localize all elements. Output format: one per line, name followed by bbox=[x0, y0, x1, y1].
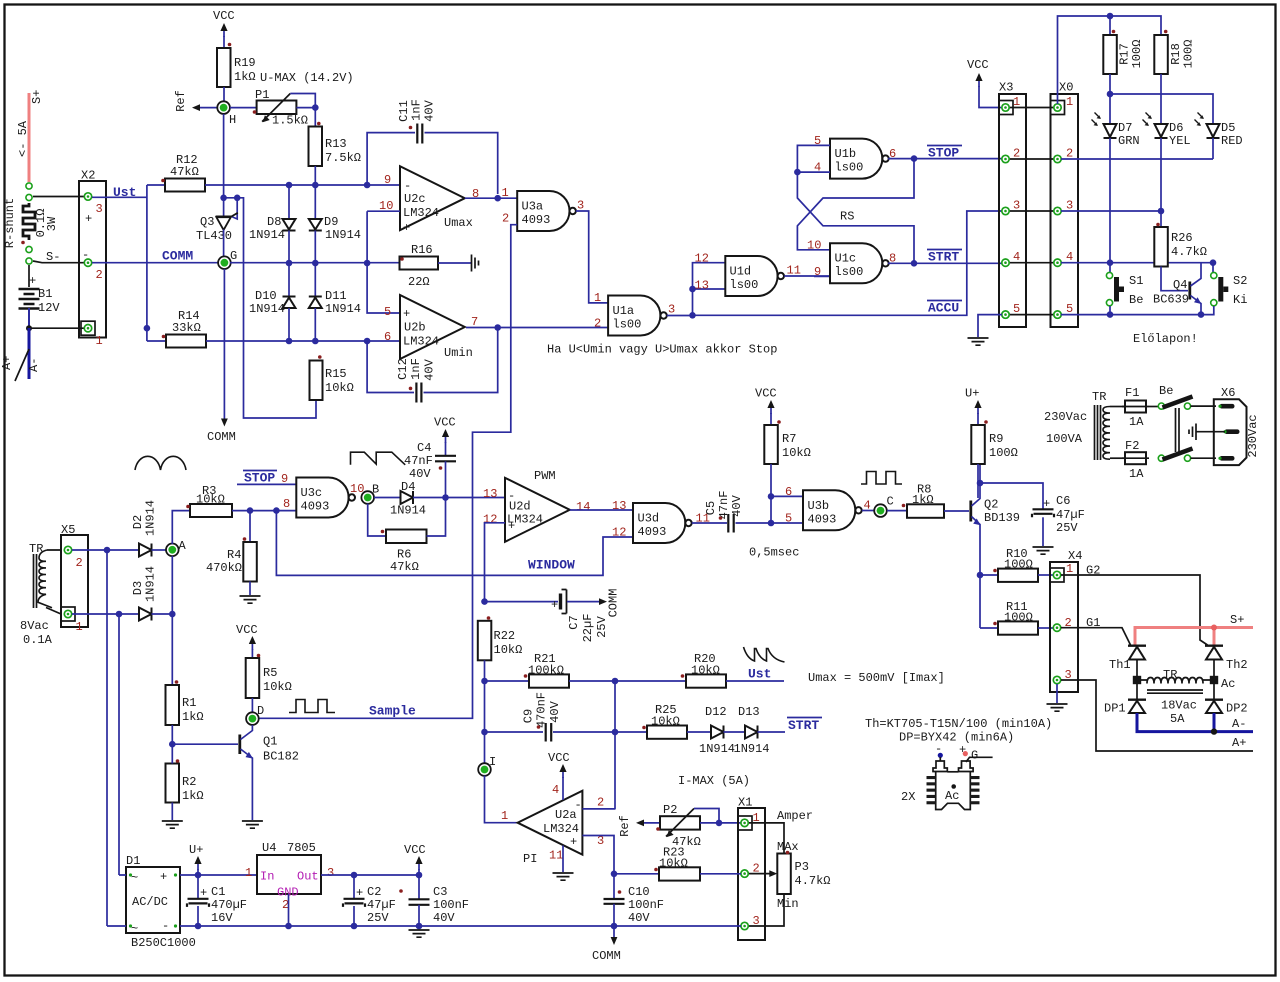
wire D1 + output bbox=[180, 874, 257, 876]
svg-text:D12: D12 bbox=[705, 705, 727, 719]
svg-text:COMM: COMM bbox=[592, 949, 621, 963]
svg-text:1: 1 bbox=[594, 291, 601, 305]
svg-text:U1b: U1b bbox=[835, 147, 857, 161]
svg-text:Umin: Umin bbox=[444, 346, 473, 360]
svg-text:U2b: U2b bbox=[404, 321, 426, 335]
svg-text:40V: 40V bbox=[423, 358, 437, 380]
diode D4 bbox=[401, 491, 414, 504]
resistor R10 bbox=[980, 574, 998, 576]
svg-text:7805: 7805 bbox=[287, 841, 316, 855]
svg-text:3: 3 bbox=[96, 202, 103, 216]
svg-text:D13: D13 bbox=[738, 705, 760, 719]
node D bbox=[246, 712, 259, 725]
svg-text:X5: X5 bbox=[61, 523, 75, 537]
svg-text:STRT: STRT bbox=[788, 718, 819, 733]
op-amp U2c bbox=[400, 166, 465, 230]
wire U4 gnd bbox=[288, 894, 290, 926]
svg-text:2: 2 bbox=[96, 268, 103, 282]
svg-text:40V: 40V bbox=[423, 99, 437, 121]
nand U1c bbox=[830, 243, 889, 283]
svg-text:10kΩ: 10kΩ bbox=[196, 493, 225, 507]
svg-text:D10: D10 bbox=[255, 289, 277, 303]
svg-text:WINDOW: WINDOW bbox=[528, 558, 575, 573]
svg-text:P3: P3 bbox=[795, 860, 809, 874]
svg-text:U-MAX (14.2V): U-MAX (14.2V) bbox=[260, 71, 354, 85]
wire U2d pin12 bbox=[485, 523, 506, 602]
resistor R22 bbox=[478, 621, 492, 661]
svg-text:B: B bbox=[372, 483, 379, 497]
svg-text:-: - bbox=[404, 179, 411, 193]
svg-text:In: In bbox=[260, 870, 274, 884]
svg-text:C5: C5 bbox=[704, 501, 718, 515]
svg-text:U+: U+ bbox=[189, 843, 203, 857]
svg-text:STOP: STOP bbox=[928, 146, 959, 161]
svg-text:Q1: Q1 bbox=[263, 735, 277, 749]
resistor R17 bbox=[1103, 35, 1117, 74]
wire U1c out / STRT bbox=[888, 262, 1002, 264]
svg-text:2: 2 bbox=[502, 212, 509, 226]
wire G1 net bbox=[1061, 628, 1131, 645]
svg-text:10kΩ: 10kΩ bbox=[325, 381, 354, 395]
svg-text:~: ~ bbox=[131, 922, 138, 936]
wire R12 to U2c pin9 bbox=[205, 184, 400, 186]
wire R13 to Ust line bbox=[314, 166, 316, 185]
svg-text:33kΩ: 33kΩ bbox=[172, 321, 201, 335]
svg-text:DP2: DP2 bbox=[1226, 702, 1248, 716]
wire RS cross 2 bbox=[797, 172, 914, 263]
transistor Q2 bbox=[969, 501, 972, 522]
svg-text:D11: D11 bbox=[325, 289, 347, 303]
svg-text:2: 2 bbox=[597, 796, 604, 810]
svg-text:13: 13 bbox=[695, 279, 709, 293]
svg-text:D: D bbox=[257, 704, 264, 718]
switch Be lower bbox=[1158, 455, 1164, 461]
svg-text:Th1: Th1 bbox=[1109, 658, 1131, 672]
svg-text:R15: R15 bbox=[325, 367, 347, 381]
svg-text:1kΩ: 1kΩ bbox=[182, 710, 204, 724]
svg-text:230Vac: 230Vac bbox=[1044, 410, 1087, 424]
svg-text:2: 2 bbox=[1013, 147, 1020, 161]
capacitor C12 bbox=[367, 341, 414, 393]
resistor R25 bbox=[647, 726, 687, 739]
svg-text:3: 3 bbox=[668, 303, 675, 317]
junction Th1 node bbox=[1133, 676, 1141, 684]
wire X0 pin3 row bbox=[1061, 210, 1161, 212]
wire D4 to U2d pin13 bbox=[413, 497, 505, 499]
wire X1 pin1 to P3 top bbox=[749, 823, 784, 854]
svg-text:1kΩ: 1kΩ bbox=[912, 493, 934, 507]
svg-text:3W: 3W bbox=[45, 216, 59, 231]
svg-text:R-shunt: R-shunt bbox=[3, 198, 17, 248]
svg-text:2X: 2X bbox=[901, 790, 915, 804]
svg-text:VCC: VCC bbox=[434, 416, 456, 430]
svg-text:X4: X4 bbox=[1068, 549, 1082, 563]
wire U2a pin2 bbox=[582, 808, 615, 810]
svg-text:100nF: 100nF bbox=[433, 898, 469, 912]
svg-text:4.7kΩ: 4.7kΩ bbox=[1171, 245, 1207, 259]
wire R26 to Q4 base bbox=[1161, 267, 1188, 291]
svg-text:13: 13 bbox=[612, 499, 626, 513]
svg-text:11: 11 bbox=[549, 849, 563, 863]
svg-text:R13: R13 bbox=[325, 137, 347, 151]
svg-text:10kΩ: 10kΩ bbox=[659, 857, 688, 871]
svg-text:470nF: 470nF bbox=[535, 692, 549, 728]
potentiometer P3 bbox=[777, 854, 791, 895]
wire R23 to X1 pin2 bbox=[700, 873, 741, 875]
svg-text:COMM: COMM bbox=[607, 589, 621, 618]
svg-text:1N914: 1N914 bbox=[249, 228, 285, 242]
svg-text:Ha U<Umin vagy U>Umax akkor St: Ha U<Umin vagy U>Umax akkor Stop bbox=[547, 343, 777, 357]
svg-text:12V: 12V bbox=[38, 301, 60, 315]
wire shunt to X2 pin2 bbox=[33, 261, 84, 263]
led D5 bbox=[1195, 113, 1220, 139]
transistor Q1 bbox=[238, 735, 241, 755]
connector X3 bbox=[999, 94, 1026, 327]
wire P1 right to R13 bbox=[296, 108, 315, 127]
svg-text:U3a: U3a bbox=[522, 200, 544, 214]
svg-text:Q2: Q2 bbox=[984, 498, 998, 512]
svg-text:~: ~ bbox=[131, 871, 138, 885]
svg-text:PWM: PWM bbox=[534, 469, 556, 483]
wire R10 to X4 pin1 bbox=[1038, 574, 1053, 576]
ground under Q1 bbox=[242, 821, 263, 828]
svg-text:1N914: 1N914 bbox=[699, 742, 735, 756]
pin dot red bbox=[963, 751, 968, 756]
svg-text:R22: R22 bbox=[494, 629, 516, 643]
resistor R4 bbox=[249, 511, 251, 542]
svg-text:+: + bbox=[570, 835, 577, 849]
svg-text:ACCU: ACCU bbox=[928, 301, 959, 316]
svg-text:4093: 4093 bbox=[808, 513, 837, 527]
wire U2c pin10 bbox=[367, 211, 400, 263]
wire P2 wiper loop bbox=[694, 809, 719, 823]
svg-text:4093: 4093 bbox=[638, 525, 667, 539]
wire U2a pin3 bbox=[582, 836, 614, 874]
svg-text:5: 5 bbox=[1013, 302, 1020, 316]
svg-text:C3: C3 bbox=[433, 885, 447, 899]
wire A+ lead bbox=[15, 349, 29, 381]
svg-text:47µF: 47µF bbox=[1056, 508, 1085, 522]
wire D7 cathode down to S1 bbox=[1109, 138, 1111, 272]
wire shunt to X2 pin3 bbox=[33, 196, 84, 198]
svg-text:2: 2 bbox=[594, 317, 601, 331]
nand U3d bbox=[633, 503, 692, 543]
svg-text:D6: D6 bbox=[1169, 121, 1183, 135]
svg-text:+: + bbox=[356, 886, 363, 900]
svg-text:DP=BYX42 (min6A): DP=BYX42 (min6A) bbox=[899, 731, 1014, 745]
wire A- blue stub bbox=[28, 328, 31, 379]
wire COMM to U2c area bbox=[230, 262, 400, 264]
wire U1d out to U1c pin9 bbox=[784, 275, 830, 277]
wire S1 bottom stub bbox=[1109, 306, 1111, 315]
svg-text:1kΩ: 1kΩ bbox=[182, 789, 204, 803]
wire A to R3 bbox=[172, 511, 190, 544]
svg-text:S+: S+ bbox=[30, 90, 44, 104]
resistor R23 bbox=[659, 867, 700, 880]
pin dot blue bbox=[938, 753, 943, 758]
diode D9 bbox=[314, 185, 316, 219]
wire X5 pin1 to D3 bbox=[72, 613, 139, 615]
svg-text:C1: C1 bbox=[211, 885, 225, 899]
wire U1b inputs bbox=[797, 145, 830, 172]
wire minus lead bbox=[939, 757, 941, 761]
svg-text:A-: A- bbox=[1232, 717, 1246, 731]
svg-text:VCC: VCC bbox=[236, 623, 258, 637]
wire X6 mid pin to ground bbox=[1197, 431, 1226, 433]
node C bbox=[874, 504, 887, 517]
svg-text:Be: Be bbox=[1129, 293, 1143, 307]
wire U1a to U1d pins bbox=[693, 263, 726, 316]
svg-text:1N914: 1N914 bbox=[144, 566, 158, 602]
resistor R2 bbox=[166, 764, 180, 803]
svg-text:H: H bbox=[229, 113, 236, 127]
svg-text:BD139: BD139 bbox=[984, 511, 1020, 525]
svg-text:D1: D1 bbox=[126, 854, 140, 868]
svg-text:D8: D8 bbox=[267, 215, 281, 229]
svg-text:C6: C6 bbox=[1056, 494, 1070, 508]
svg-text:25V: 25V bbox=[1056, 521, 1078, 535]
svg-text:1: 1 bbox=[501, 809, 508, 823]
led D6 bbox=[1143, 113, 1168, 139]
svg-text:X2: X2 bbox=[81, 169, 95, 183]
svg-text:ls00: ls00 bbox=[730, 278, 759, 292]
svg-text:Ac: Ac bbox=[945, 789, 959, 803]
svg-text:+: + bbox=[403, 307, 410, 321]
svg-text:13: 13 bbox=[483, 487, 497, 501]
wire P2 to X1 pin1 bbox=[700, 822, 741, 824]
transformer TR small core bbox=[34, 554, 37, 608]
wire R17 to D7 and D5 branch bbox=[1110, 74, 1213, 123]
capacitor C7 bbox=[559, 594, 562, 610]
transformer TR small coil bbox=[38, 550, 52, 608]
svg-text:-: - bbox=[575, 798, 582, 812]
svg-text:A+: A+ bbox=[0, 356, 14, 370]
svg-text:U4: U4 bbox=[262, 841, 276, 855]
regulator U4 7805 bbox=[257, 855, 321, 894]
wire A- rail bbox=[1136, 713, 1254, 732]
square waveform glyph bbox=[861, 472, 902, 485]
resistor R7 bbox=[764, 425, 778, 464]
svg-text:1: 1 bbox=[1066, 95, 1073, 109]
wire U3b out bbox=[862, 510, 875, 512]
heatsink 2X bbox=[933, 761, 973, 810]
wire U3a pin2 sample net bbox=[258, 225, 517, 719]
svg-text:D9: D9 bbox=[324, 215, 338, 229]
svg-text:S1: S1 bbox=[1129, 274, 1143, 288]
svg-text:G: G bbox=[230, 249, 237, 263]
wire R11 to X4 pin2 bbox=[1038, 627, 1053, 629]
wire S+ red rail bbox=[1135, 628, 1253, 646]
svg-text:AC/DC: AC/DC bbox=[132, 895, 168, 909]
svg-text:100kΩ: 100kΩ bbox=[528, 664, 564, 678]
transistor Q4 bbox=[1188, 282, 1191, 300]
svg-text:100Ω: 100Ω bbox=[989, 446, 1018, 460]
svg-text:+: + bbox=[403, 221, 410, 235]
svg-text:8Vac: 8Vac bbox=[20, 619, 49, 633]
wire H to P1 bbox=[230, 107, 257, 109]
svg-text:+: + bbox=[85, 212, 92, 226]
svg-text:4: 4 bbox=[552, 783, 559, 797]
wire shunt to battery bbox=[28, 265, 30, 287]
svg-text:100Ω: 100Ω bbox=[1182, 40, 1196, 69]
svg-text:U2d: U2d bbox=[509, 500, 531, 514]
svg-text:7.5kΩ: 7.5kΩ bbox=[325, 151, 361, 165]
svg-text:+: + bbox=[551, 598, 558, 612]
svg-text:C12: C12 bbox=[396, 358, 410, 380]
svg-text:STRT: STRT bbox=[928, 250, 959, 265]
wire G2 net bbox=[1061, 575, 1208, 645]
connector X1 bbox=[738, 808, 765, 940]
resistor R26 bbox=[1154, 227, 1168, 267]
svg-text:GRN: GRN bbox=[1118, 134, 1140, 148]
connector X0 bbox=[1051, 94, 1079, 327]
node G bbox=[218, 256, 231, 269]
wire C to R8 bbox=[887, 510, 907, 512]
svg-text:2: 2 bbox=[76, 556, 83, 570]
svg-text:14: 14 bbox=[576, 500, 590, 514]
svg-text:D5: D5 bbox=[1221, 121, 1235, 135]
svg-text:6: 6 bbox=[384, 330, 391, 344]
svg-text:S2: S2 bbox=[1233, 274, 1247, 288]
svg-text:X0: X0 bbox=[1059, 81, 1073, 95]
svg-text:U2c: U2c bbox=[404, 192, 426, 206]
svg-text:B250C1000: B250C1000 bbox=[131, 936, 196, 950]
wire C5 to U3b pin5 bbox=[736, 522, 804, 524]
transistor Q3 TL430 bbox=[216, 213, 238, 230]
svg-text:Min: Min bbox=[777, 897, 799, 911]
svg-text:Előlapon!: Előlapon! bbox=[1133, 332, 1198, 346]
svg-text:D7: D7 bbox=[1118, 121, 1132, 135]
wire R23 row bbox=[614, 873, 659, 875]
wire Ref arrow P2 bbox=[643, 822, 660, 824]
wire R8 to Q2 base bbox=[944, 510, 969, 512]
wire R16 to ground bbox=[438, 262, 471, 264]
svg-text:BC182: BC182 bbox=[263, 750, 299, 764]
svg-text:5: 5 bbox=[785, 512, 792, 526]
svg-text:1N914: 1N914 bbox=[325, 302, 361, 316]
svg-text:100nF: 100nF bbox=[628, 898, 664, 912]
wire G down to COMM arrow bbox=[223, 269, 225, 420]
resistor R18 bbox=[1154, 35, 1168, 74]
wire X3 pin5 to ground bbox=[978, 315, 1002, 337]
capacitor C4 bbox=[435, 456, 456, 462]
wire COMM arrow bottom bbox=[613, 926, 615, 938]
wire B to D4 bbox=[374, 497, 400, 499]
svg-text:PI: PI bbox=[523, 852, 537, 866]
svg-text:VCC: VCC bbox=[404, 843, 426, 857]
wire D6 down to R26 bbox=[1160, 138, 1162, 227]
svg-text:DP1: DP1 bbox=[1104, 702, 1126, 716]
svg-text:1N914: 1N914 bbox=[249, 302, 285, 316]
wire X2 pin3 to R12 vertical bbox=[92, 196, 147, 198]
svg-text:+: + bbox=[29, 274, 36, 288]
svg-text:0,5msec: 0,5msec bbox=[749, 546, 799, 560]
capacitor C1 bbox=[197, 875, 199, 899]
nand U3b bbox=[803, 490, 862, 530]
svg-text:470kΩ: 470kΩ bbox=[206, 561, 242, 575]
wire H down to Q3 bbox=[223, 114, 225, 216]
svg-text:10kΩ: 10kΩ bbox=[782, 446, 811, 460]
svg-text:C9: C9 bbox=[522, 709, 536, 723]
transformer TR 18Vac coil bbox=[1141, 679, 1210, 681]
svg-text:Ust: Ust bbox=[748, 667, 771, 682]
svg-text:COMM: COMM bbox=[207, 430, 236, 444]
wire X2 pin2 COMM bbox=[92, 262, 218, 264]
svg-text:Ref: Ref bbox=[174, 90, 188, 112]
svg-text:R5: R5 bbox=[263, 666, 277, 680]
svg-text:VCC: VCC bbox=[967, 58, 989, 72]
svg-text:R9: R9 bbox=[989, 432, 1003, 446]
resistor R20 bbox=[686, 674, 726, 687]
svg-text:Q4: Q4 bbox=[1173, 278, 1187, 292]
svg-text:1N914: 1N914 bbox=[734, 742, 770, 756]
wire RS cross 1 bbox=[797, 159, 914, 250]
diode D11 bbox=[314, 263, 316, 296]
svg-text:Umax = 500mV [Imax]: Umax = 500mV [Imax] bbox=[808, 671, 945, 685]
svg-text:5A: 5A bbox=[1170, 712, 1185, 726]
svg-text:F2: F2 bbox=[1125, 439, 1139, 453]
wire U3d out to C5 bbox=[692, 522, 727, 524]
svg-text:-: - bbox=[162, 919, 169, 933]
wire X5 rails to D1 bbox=[107, 550, 119, 926]
capacitor C6 bbox=[1032, 509, 1054, 517]
connector X6 bbox=[1214, 399, 1247, 465]
svg-text:A: A bbox=[179, 539, 187, 553]
svg-text:12: 12 bbox=[612, 526, 626, 540]
wire R18 to D6 bbox=[1160, 74, 1162, 123]
wire C9 to R25 bbox=[553, 731, 647, 733]
svg-text:22Ω: 22Ω bbox=[408, 275, 430, 289]
svg-text:-: - bbox=[404, 337, 411, 351]
resistor R11 bbox=[980, 627, 998, 629]
svg-text:47µF: 47µF bbox=[367, 898, 396, 912]
svg-text:Be: Be bbox=[1159, 384, 1173, 398]
svg-text:Ac: Ac bbox=[1221, 677, 1235, 691]
ground at X6 bbox=[1189, 424, 1196, 441]
ground under X3 bbox=[968, 338, 989, 345]
wire R3 to U3c pin8 bbox=[232, 510, 296, 512]
svg-text:YEL: YEL bbox=[1169, 134, 1191, 148]
wire U4 out bbox=[321, 875, 419, 899]
svg-text:1kΩ: 1kΩ bbox=[234, 70, 256, 84]
svg-text:25V: 25V bbox=[595, 615, 609, 637]
svg-text:R16: R16 bbox=[411, 243, 433, 257]
wire COMM junction to U2b pin5 bbox=[367, 263, 400, 313]
nand U3a bbox=[517, 191, 576, 231]
wire C7 branch bbox=[485, 601, 559, 603]
wire F1 to switch bbox=[1149, 406, 1158, 408]
fuse F2 bbox=[1125, 452, 1146, 464]
svg-text:4.7kΩ: 4.7kΩ bbox=[795, 874, 831, 888]
ground under R2 bbox=[162, 821, 183, 828]
svg-text:10kΩ: 10kΩ bbox=[263, 680, 292, 694]
svg-text:1: 1 bbox=[502, 186, 509, 200]
svg-text:ls00: ls00 bbox=[835, 265, 864, 279]
wire U2b output bbox=[466, 327, 608, 329]
svg-text:<- 5A: <- 5A bbox=[16, 120, 30, 157]
wire D13 to STRT end bbox=[758, 731, 786, 733]
diode D10 bbox=[288, 263, 290, 296]
resistor R5 bbox=[246, 658, 260, 698]
nand U1a bbox=[608, 296, 667, 336]
svg-text:C2: C2 bbox=[367, 885, 381, 899]
wire P3 bottom to X1 pin3 bbox=[749, 894, 784, 926]
wire C7 to COMM arrow bbox=[567, 601, 600, 603]
wire S+ red bbox=[28, 93, 31, 182]
svg-text:10kΩ: 10kΩ bbox=[494, 643, 523, 657]
svg-text:A-: A- bbox=[27, 358, 41, 372]
svg-text:47kΩ: 47kΩ bbox=[170, 165, 199, 179]
